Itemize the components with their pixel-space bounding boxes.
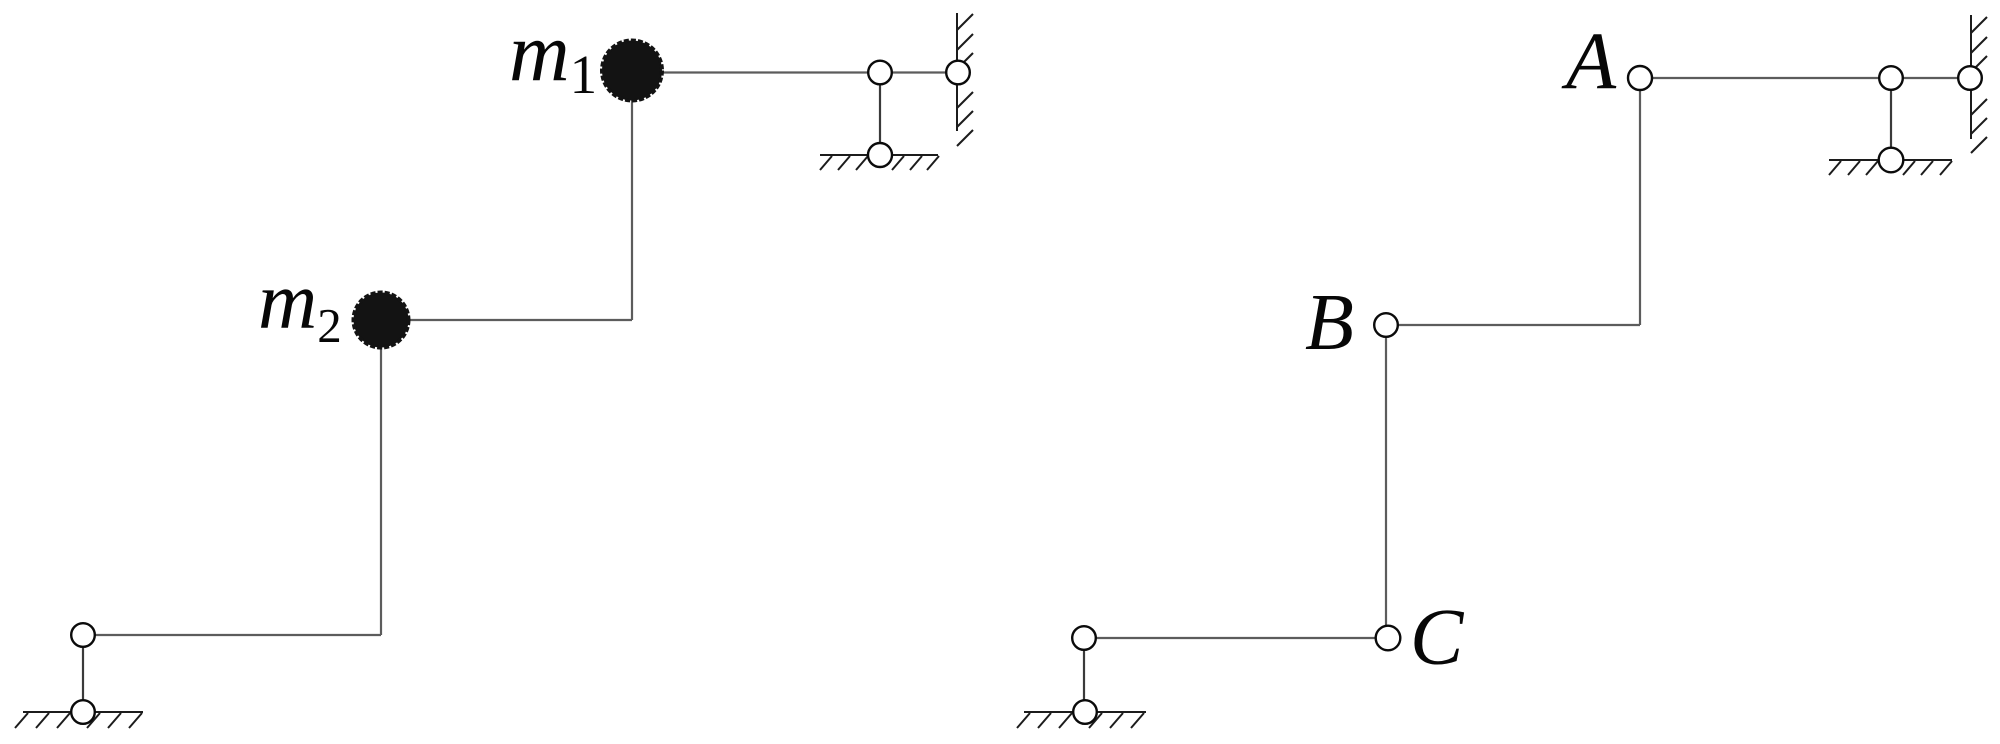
ground: top support (right figure) <box>1829 160 1952 175</box>
wire: support link pin D down to ground pin <box>879 73 881 156</box>
pin joint on wall (left figure) <box>946 61 970 85</box>
wire: bottom horizontal link <box>83 634 381 636</box>
pin joint C <box>1376 626 1401 651</box>
pin joint E (left figure bottom) <box>71 623 95 647</box>
wire: horizontal link B to corner <box>1386 324 1640 326</box>
wire: vertical link from m1 down to corner <box>631 70 633 320</box>
label C <box>1410 594 1465 682</box>
wire: support link (right figure bottom) <box>1083 638 1085 712</box>
label B <box>1305 279 1354 367</box>
label A <box>1561 15 1617 106</box>
pin joint at top ground support (left figure) <box>868 143 892 167</box>
ground: bottom support (right figure) <box>1017 712 1146 728</box>
pin joint D' (right figure top) <box>1879 66 1903 90</box>
wire: vertical link B to C <box>1385 325 1387 638</box>
wire: horizontal link m2 to corner <box>381 319 632 321</box>
pin joint F at bottom ground support (left figure) <box>71 700 95 724</box>
mass m1 (filled) <box>602 41 662 101</box>
wire: support link pin E to pin F <box>82 635 84 712</box>
wire: vertical link from m2 down <box>380 320 382 635</box>
wire: link A to wall pin (horizontal top bar) <box>1640 77 1970 79</box>
pin joint at bottom ground support (right figure) <box>1073 700 1097 724</box>
ground: top support (left figure) <box>820 155 939 170</box>
svg-text:A: A <box>1561 15 1617 106</box>
svg-text:C: C <box>1410 594 1465 682</box>
wire: link m1 to pin D (horizontal top bar) <box>632 71 958 73</box>
wall: right wall (left figure) <box>957 13 973 146</box>
ground: bottom support (left figure) <box>15 712 143 728</box>
label m1 <box>509 6 597 105</box>
wire: bottom horizontal link to C <box>1084 637 1388 639</box>
label m2 <box>258 255 342 353</box>
wire: support link below top pin (right figure) <box>1890 78 1892 160</box>
pin joint E' (right figure bottom) <box>1072 626 1096 650</box>
pin joint B <box>1374 313 1398 337</box>
svg-text:B: B <box>1305 279 1354 367</box>
pin joint on wall (right figure) <box>1958 66 1982 90</box>
svg-text:m1: m1 <box>509 6 597 105</box>
pin joint at top ground support (right figure) <box>1879 148 1904 173</box>
pin joint D (left figure, top) <box>868 61 892 85</box>
wall: right wall (right figure) <box>1971 15 1987 153</box>
wire: vertical link from A down to corner <box>1639 78 1641 325</box>
pin joint A <box>1628 66 1652 90</box>
svg-text:m2: m2 <box>258 255 342 353</box>
mass m2 (filled) <box>354 293 409 348</box>
